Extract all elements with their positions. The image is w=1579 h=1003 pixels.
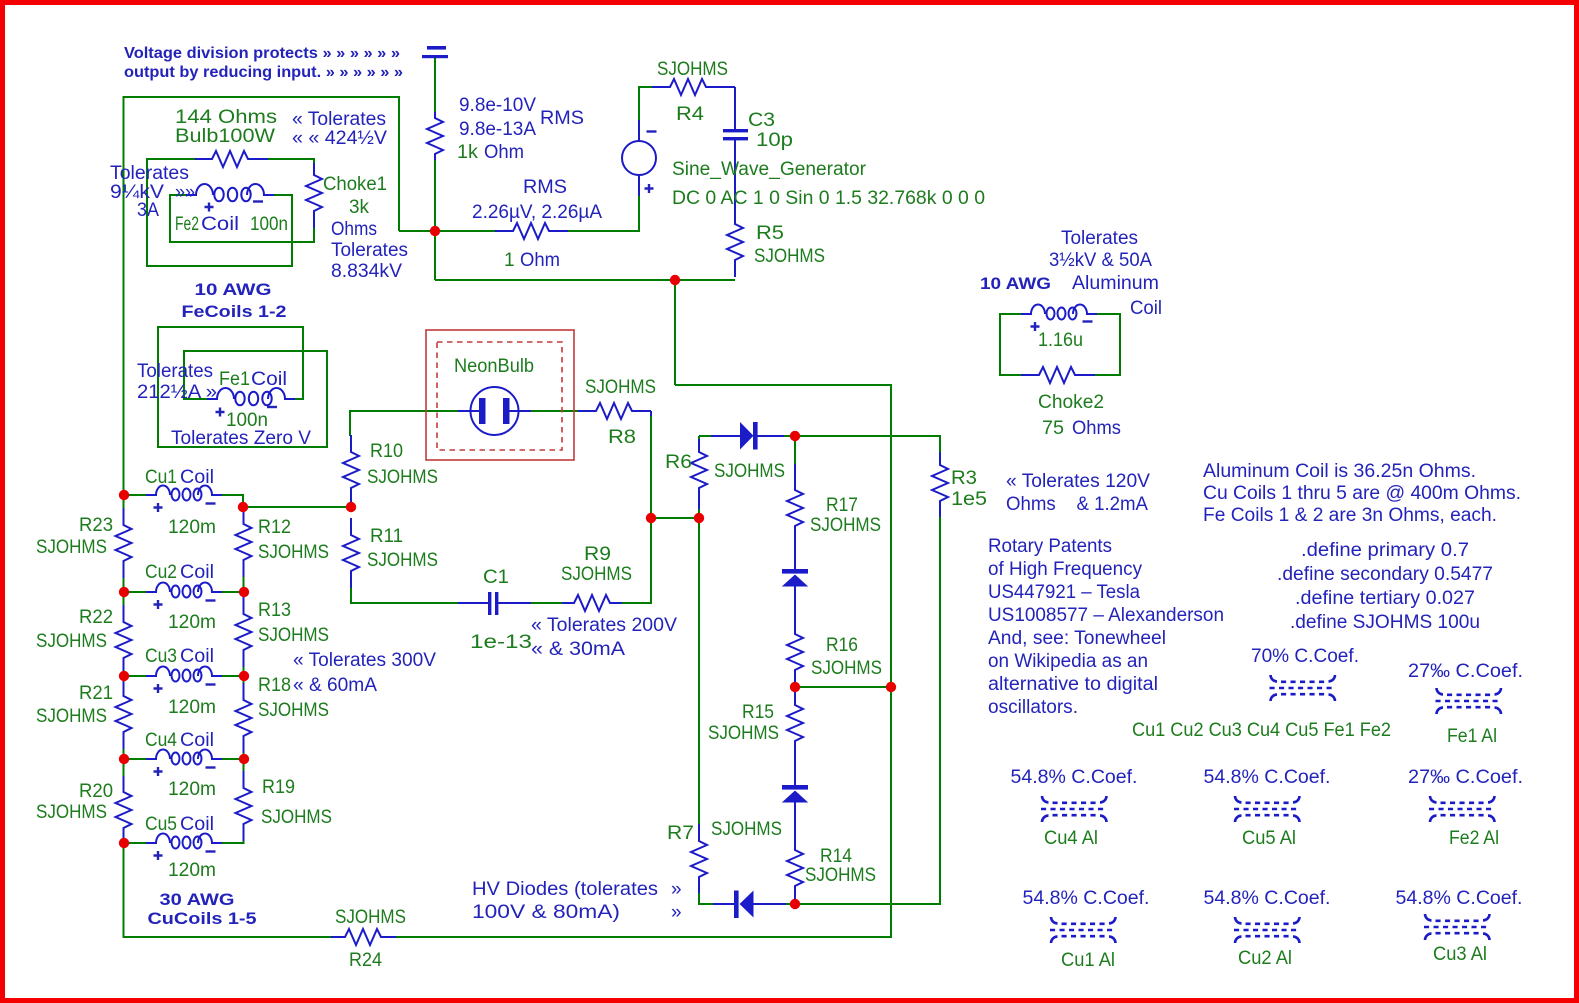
svg-text:Ohms: Ohms	[1072, 418, 1121, 439]
wire corner R6 top	[698, 436, 700, 441]
svg-text:R4: R4	[676, 104, 704, 125]
wire row1 right	[567, 230, 640, 232]
svg-text:C3: C3	[748, 110, 775, 131]
svg-text:R7: R7	[667, 823, 694, 844]
node: Fe2 loop spiral wire	[147, 159, 314, 266]
junction node A row1	[430, 226, 440, 236]
resistor R6	[691, 439, 707, 509]
svg-text:75: 75	[1042, 418, 1064, 439]
junction node Cu5 L	[119, 838, 129, 848]
svg-text:Fe1 Al: Fe1 Al	[1447, 726, 1497, 747]
svg-text:SJOHMS: SJOHMS	[754, 246, 825, 267]
svg-text:SJOHMS: SJOHMS	[261, 807, 332, 828]
wire R11 to C1 row	[350, 588, 352, 604]
svg-text:Coil: Coil	[180, 467, 214, 488]
svg-text:R17: R17	[826, 495, 858, 516]
svg-text:of High Frequency: of High Frequency	[988, 559, 1142, 580]
svg-text:70% C.Coef.: 70% C.Coef.	[1251, 646, 1359, 667]
wire R1k to node	[434, 160, 436, 232]
svg-text:.define primary 0.7: .define primary 0.7	[1301, 540, 1469, 561]
svg-text:SJOHMS: SJOHMS	[811, 658, 882, 679]
svg-text:54.8% C.Coef.: 54.8% C.Coef.	[1204, 888, 1331, 909]
svg-text:»»: »»	[175, 182, 195, 203]
svg-text:Tolerates: Tolerates	[1061, 228, 1138, 249]
inductor Cu4 Coil	[146, 750, 222, 765]
inductor Cu1 Coil	[146, 486, 222, 501]
resistor R14	[787, 802, 803, 904]
svg-text:« Tolerates 300V: « Tolerates 300V	[293, 650, 436, 671]
wire right col R12-R13	[243, 577, 245, 597]
svg-text:Coil: Coil	[180, 814, 214, 835]
svg-text:HV Diodes (tolerates: HV Diodes (tolerates	[472, 879, 658, 900]
resistor R10	[343, 435, 359, 505]
junction node Cu4 L	[119, 754, 129, 764]
diode D3	[782, 785, 808, 803]
wire Cu4 right	[221, 758, 244, 760]
svg-text:30 AWG: 30 AWG	[160, 891, 235, 909]
svg-text:Coil: Coil	[251, 369, 287, 390]
svg-text:1: 1	[504, 250, 515, 271]
svg-text:Tolerates Zero V: Tolerates Zero V	[171, 428, 311, 449]
svg-text:3k: 3k	[349, 197, 369, 218]
resistor R5	[727, 207, 743, 277]
svg-text:SJOHMS: SJOHMS	[36, 802, 107, 823]
wire right col R19 end	[243, 841, 245, 844]
svg-text:54.8% C.Coef.: 54.8% C.Coef.	[1011, 767, 1138, 788]
svg-text:Rotary Patents: Rotary Patents	[988, 536, 1112, 557]
svg-text:SJOHMS: SJOHMS	[258, 700, 329, 721]
svg-text:3½kV & 50A: 3½kV & 50A	[1049, 250, 1152, 271]
resistor Choke2	[1021, 367, 1095, 383]
junction node F	[694, 513, 704, 523]
inductor Cu5 Coil	[146, 834, 222, 849]
svg-text:120m: 120m	[168, 697, 216, 718]
svg-text:120m: 120m	[168, 860, 216, 881]
svg-text:Coil: Coil	[180, 730, 214, 751]
junction node J	[790, 899, 800, 909]
svg-text:R6: R6	[665, 452, 692, 473]
svg-text:27‰ C.Coef.: 27‰ C.Coef.	[1408, 661, 1523, 682]
svg-text:Bulb100W: Bulb100W	[175, 126, 275, 147]
resistor R11	[343, 518, 359, 588]
inductor Fe1 Coil	[207, 388, 295, 405]
svg-text:DC 0 AC 1 0 Sin 0 1.5 32.768k: DC 0 AC 1 0 Sin 0 1.5 32.768k 0 0 0	[672, 188, 985, 209]
svg-text:Fe2: Fe2	[175, 214, 199, 235]
wire Cu2 right	[221, 591, 244, 593]
svg-text:« & 30mA: « & 30mA	[531, 639, 625, 660]
svg-text:Cu5: Cu5	[145, 814, 177, 835]
resistor R16	[787, 586, 803, 687]
wire Cu5 right	[221, 842, 244, 844]
neon bulb inner dashed red box	[437, 342, 562, 450]
wire R8 down to C1 row	[650, 414, 652, 604]
diode D4	[713, 891, 786, 919]
resistor 1k Ohm	[427, 112, 443, 160]
svg-text:144 Ohms: 144 Ohms	[175, 107, 277, 128]
svg-text:R3: R3	[951, 468, 977, 489]
svg-text:1.16u: 1.16u	[1038, 330, 1083, 351]
wire bottom R24 right	[396, 936, 892, 938]
svg-text:Cu4 Al: Cu4 Al	[1044, 828, 1098, 849]
junction node H	[790, 682, 800, 692]
svg-text:Tolerates: Tolerates	[331, 240, 408, 261]
inductor Cu3 Coil	[146, 667, 222, 682]
svg-text:US447921 – Tesla: US447921 – Tesla	[988, 582, 1140, 603]
wire Cu1 left	[124, 494, 146, 496]
coupling K2 Fe1	[1436, 688, 1503, 714]
svg-text:SJOHMS: SJOHMS	[36, 537, 107, 558]
junction node Cu2 R	[239, 587, 249, 597]
svg-text:SJOHMS: SJOHMS	[708, 723, 779, 744]
svg-text:Cu3 Al: Cu3 Al	[1433, 944, 1487, 965]
wire R7 bottom corner	[698, 893, 700, 905]
wire diode row left	[699, 435, 712, 437]
svg-text:And, see: Tonewheel: And, see: Tonewheel	[988, 628, 1166, 649]
svg-text:.define SJOHMS 100u: .define SJOHMS 100u	[1290, 612, 1480, 633]
junction node Cu3 R	[239, 671, 249, 681]
svg-text:120m: 120m	[168, 612, 216, 633]
resistor R23	[116, 508, 132, 578]
svg-text:Aluminum: Aluminum	[1072, 273, 1159, 294]
svg-text:R14: R14	[820, 846, 852, 867]
svg-text:100V & 80mA): 100V & 80mA)	[472, 902, 620, 923]
svg-text:27‰ C.Coef.: 27‰ C.Coef.	[1408, 767, 1523, 788]
svg-text:SJOHMS: SJOHMS	[367, 550, 438, 571]
svg-text:10 AWG: 10 AWG	[195, 281, 272, 299]
svg-text:C1: C1	[483, 567, 509, 588]
diode D1	[711, 422, 784, 450]
junction node Cu2 L	[119, 587, 129, 597]
svg-text:Cu2: Cu2	[145, 562, 177, 583]
wire left column seg R22-R21	[123, 675, 125, 680]
svg-text:Cu2 Al: Cu2 Al	[1238, 948, 1292, 969]
wire return vertical to node	[674, 280, 676, 385]
svg-text:Choke2: Choke2	[1038, 392, 1104, 413]
resistor R4	[652, 79, 724, 95]
voltage source V2 sine generator	[622, 120, 656, 196]
svg-text:« Tolerates 200V: « Tolerates 200V	[531, 615, 677, 636]
svg-text:Cu1 Al: Cu1 Al	[1061, 950, 1115, 971]
svg-text:Cu3: Cu3	[145, 646, 177, 667]
wire R9 to corner	[621, 602, 652, 604]
svg-text:R24: R24	[349, 950, 382, 971]
wire row2	[435, 279, 735, 281]
wire corner to R10	[349, 410, 351, 436]
wire sine bottom	[638, 196, 640, 231]
coupling K8 Cu3	[1424, 914, 1491, 940]
wire node down	[434, 231, 436, 280]
wire R3 bottom long	[939, 517, 941, 904]
resistor R17	[787, 464, 803, 569]
svg-text:SJOHMS: SJOHMS	[657, 59, 728, 80]
svg-text:RMS: RMS	[523, 177, 567, 198]
svg-text:Cu Coils 1 thru 5 are @ 400m O: Cu Coils 1 thru 5 are @ 400m Ohms.	[1203, 483, 1521, 504]
svg-text:R19: R19	[262, 777, 295, 798]
svg-text:R16: R16	[826, 635, 858, 656]
svg-text:« Tolerates 120V: « Tolerates 120V	[1006, 471, 1150, 492]
resistor R13	[236, 597, 252, 667]
svg-text:oscillators.: oscillators.	[988, 697, 1078, 718]
inductor Cu2 Coil	[146, 583, 222, 598]
svg-text:Ohm: Ohm	[520, 250, 560, 271]
neon bulb NE1	[458, 387, 531, 435]
wire C1 row left	[351, 602, 459, 604]
svg-text:100n: 100n	[250, 214, 288, 235]
svg-text:Sine_Wave_Generator: Sine_Wave_Generator	[672, 159, 867, 180]
wire Cu5 left	[124, 842, 146, 844]
wire right return vertical	[890, 385, 892, 938]
svg-text:10 AWG: 10 AWG	[980, 275, 1051, 293]
svg-text:« « 424½V: « « 424½V	[292, 128, 387, 149]
wire Cu3 left	[124, 675, 146, 677]
resistor R8	[578, 403, 651, 419]
resistor R18	[236, 683, 252, 753]
svg-text:8.834kV: 8.834kV	[331, 261, 402, 282]
coupling K1 70%	[1270, 675, 1337, 701]
wire y687 row	[795, 686, 892, 688]
resistor R20	[116, 776, 132, 843]
wire right col R13-R18	[243, 667, 245, 683]
wire junction row y518	[651, 517, 700, 519]
svg-text:Coil: Coil	[180, 646, 214, 667]
svg-text:R10: R10	[370, 441, 403, 462]
wire R6 node down to R7	[698, 518, 700, 824]
svg-text:Tolerates: Tolerates	[137, 361, 213, 382]
svg-text:« Tolerates: « Tolerates	[292, 109, 386, 130]
svg-text:10p: 10p	[756, 130, 793, 151]
junction node C	[346, 502, 356, 512]
svg-text:9.8e-10V: 9.8e-10V	[459, 95, 536, 116]
wire left column bottom	[123, 843, 125, 938]
junction node Cu4 R	[239, 754, 249, 764]
wire sine top	[638, 86, 640, 120]
svg-text:on Wikipedia as an: on Wikipedia as an	[988, 651, 1148, 672]
svg-text:R21: R21	[79, 683, 113, 704]
svg-text:SJOHMS: SJOHMS	[805, 865, 876, 886]
wire left column seg R21-R20	[123, 749, 125, 776]
coupling K7 Cu2	[1234, 917, 1301, 943]
resistor R22	[116, 605, 132, 675]
wire neon left	[350, 410, 459, 412]
svg-text:R15: R15	[742, 702, 774, 723]
coupling K5 Fe2	[1429, 796, 1496, 822]
svg-text:Aluminum Coil is 36.25n Ohms.: Aluminum Coil is 36.25n Ohms.	[1203, 461, 1476, 482]
junction node E	[646, 513, 656, 523]
svg-text:120m: 120m	[168, 779, 216, 800]
junction node G diode out	[790, 431, 800, 441]
resistor R12	[236, 507, 252, 577]
wire to R4	[639, 86, 653, 88]
svg-text:54.8% C.Coef.: 54.8% C.Coef.	[1023, 888, 1150, 909]
svg-text:9.8e-13A: 9.8e-13A	[459, 119, 536, 140]
junction node Cu3 L	[119, 671, 129, 681]
svg-text:212½A »: 212½A »	[137, 382, 217, 403]
svg-text:Voltage division protects » »: Voltage division protects » » » » » »	[124, 45, 400, 62]
wire C1 to R9	[531, 602, 563, 604]
svg-text:Cu1: Cu1	[145, 467, 177, 488]
node: top-left loop top edge	[123, 97, 399, 231]
svg-text:»: »	[671, 879, 682, 900]
wire R3 top	[939, 436, 941, 453]
svg-text:CuCoils 1-5: CuCoils 1-5	[148, 910, 257, 928]
svg-text:Cu1 Cu2 Cu3 Cu4 Cu5 Fe1 Fe2: Cu1 Cu2 Cu3 Cu4 Cu5 Fe1 Fe2	[1132, 720, 1391, 741]
svg-text:SJOHMS: SJOHMS	[258, 542, 329, 563]
svg-text:Fe1: Fe1	[219, 369, 250, 390]
resistor R21	[116, 680, 132, 749]
svg-text:R9: R9	[584, 544, 611, 565]
junction node I	[886, 682, 896, 692]
wire bottom row right	[786, 903, 941, 905]
svg-text:3A: 3A	[137, 200, 159, 221]
svg-text:R11: R11	[370, 526, 403, 547]
coupling K4 Cu5	[1234, 796, 1301, 822]
svg-text:« & 60mA: « & 60mA	[293, 675, 377, 696]
svg-text:R12: R12	[258, 517, 291, 538]
svg-text:RMS: RMS	[540, 108, 584, 129]
battery V1	[427, 46, 446, 50]
svg-text:Ohms & 1.2mA: Ohms & 1.2mA	[1006, 494, 1148, 515]
svg-text:SJOHMS: SJOHMS	[36, 706, 107, 727]
resistor R24	[331, 929, 396, 945]
svg-text:SJOHMS: SJOHMS	[714, 461, 785, 482]
junction node B row2	[670, 275, 680, 285]
coupling K6 Cu1	[1050, 917, 1117, 943]
svg-text:Coil: Coil	[180, 562, 214, 583]
wire neon to R8	[531, 410, 579, 412]
svg-text:Ohms: Ohms	[331, 219, 377, 240]
node: Choke2 loop rectangle	[1000, 314, 1120, 375]
svg-text:.define tertiary 0.027: .define tertiary 0.027	[1295, 588, 1475, 609]
svg-text:120m: 120m	[168, 517, 216, 538]
svg-text:.define secondary 0.5477: .define secondary 0.5477	[1277, 564, 1493, 585]
wire R10 to node	[350, 505, 352, 508]
svg-text:Choke1: Choke1	[323, 174, 387, 195]
svg-text:1k: 1k	[457, 142, 479, 163]
wire ladder top green	[794, 441, 796, 464]
resistor Choke1	[306, 163, 322, 228]
svg-text:1e-13: 1e-13	[470, 632, 532, 653]
wire R6 bottom to node	[698, 509, 700, 519]
inductor Aluminum Coil 1.16u	[1021, 305, 1097, 320]
wire row1 left	[399, 230, 496, 232]
wire Cu3 right	[221, 675, 244, 677]
wire battery to R1k	[434, 58, 436, 112]
inductor Fe2 Coil	[186, 184, 274, 201]
svg-text:SJOHMS: SJOHMS	[367, 467, 438, 488]
junction node Cu1 L	[119, 490, 129, 500]
svg-text:54.8% C.Coef.: 54.8% C.Coef.	[1204, 767, 1331, 788]
svg-text:Cu4: Cu4	[145, 730, 177, 751]
svg-text:Cu5 Al: Cu5 Al	[1242, 828, 1296, 849]
svg-text:SJOHMS: SJOHMS	[258, 625, 329, 646]
junction node D	[238, 502, 248, 512]
svg-text:R13: R13	[258, 600, 291, 621]
svg-text:R22: R22	[79, 607, 113, 628]
svg-text:Tolerates: Tolerates	[110, 163, 189, 184]
svg-text:SJOHMS: SJOHMS	[711, 819, 782, 840]
resistor R9	[562, 595, 622, 611]
node: Fe1 loop spiral wire	[158, 327, 327, 447]
svg-text:alternative to digital: alternative to digital	[988, 674, 1158, 695]
wire left main vertical upper	[123, 96, 125, 508]
svg-text:Ohm: Ohm	[484, 142, 524, 163]
wire node row y507	[243, 506, 352, 508]
coupling K3 Cu4	[1041, 796, 1108, 822]
svg-text:1e5: 1e5	[951, 489, 987, 510]
svg-text:FeCoils 1-2: FeCoils 1-2	[182, 303, 287, 321]
svg-text:R18: R18	[258, 675, 291, 696]
resistor Bulb100W	[195, 151, 268, 167]
svg-text:R23: R23	[79, 515, 113, 536]
svg-text:2.26µV, 2.26µA: 2.26µV, 2.26µA	[472, 202, 602, 223]
wire diode row right	[784, 435, 941, 437]
svg-text:R8: R8	[608, 427, 636, 448]
capacitor C1	[458, 602, 489, 604]
wire return horizontal y385	[675, 384, 892, 386]
svg-text:US1008577 – Alexanderson: US1008577 – Alexanderson	[988, 605, 1224, 626]
wire Cu1 jog	[242, 494, 244, 507]
resistor R7	[691, 824, 707, 893]
svg-text:SJOHMS: SJOHMS	[585, 377, 656, 398]
wire right col R18-R19	[243, 753, 245, 771]
svg-text:Coil: Coil	[201, 214, 239, 235]
svg-text:R5: R5	[756, 223, 784, 244]
wire Cu2 left	[124, 591, 146, 593]
resistor 1 Ohm	[495, 223, 568, 239]
svg-text:SJOHMS: SJOHMS	[810, 515, 881, 536]
svg-text:54.8% C.Coef.: 54.8% C.Coef.	[1396, 888, 1523, 909]
diode D2	[782, 569, 808, 587]
resistor R3	[932, 452, 948, 517]
capacitor C3	[734, 87, 736, 130]
wire bottom row to diode	[699, 903, 713, 905]
svg-text:output by reducing input. » »: output by reducing input. » » » » » »	[124, 64, 403, 81]
svg-text:SJOHMS: SJOHMS	[561, 564, 632, 585]
svg-text:R20: R20	[79, 781, 113, 802]
svg-text:NeonBulb: NeonBulb	[454, 356, 534, 377]
svg-text:Fe2 Al: Fe2 Al	[1449, 828, 1499, 849]
svg-text:SJOHMS: SJOHMS	[36, 631, 107, 652]
wire Cu1 right	[221, 494, 243, 496]
wire bottom R24 left	[123, 936, 332, 938]
svg-text:»: »	[671, 902, 682, 923]
svg-text:Fe Coils 1 & 2 are 3n Ohms, ea: Fe Coils 1 & 2 are 3n Ohms, each.	[1203, 505, 1497, 526]
resistor R19	[236, 771, 252, 841]
resistor R15	[787, 688, 803, 785]
svg-text:Coil: Coil	[1130, 298, 1162, 319]
neon bulb outer red box	[426, 330, 574, 460]
wire left column seg R23-R22	[123, 578, 125, 605]
svg-text:SJOHMS: SJOHMS	[335, 907, 406, 928]
wire Cu4 left	[124, 758, 146, 760]
